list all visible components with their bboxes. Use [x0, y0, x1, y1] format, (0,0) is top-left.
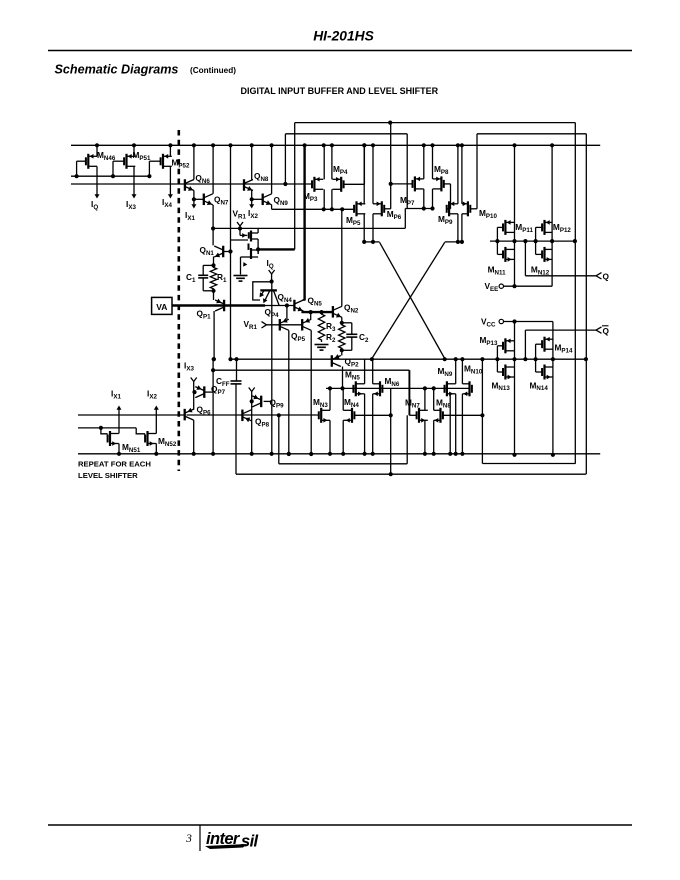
- svg-text:Q: Q: [603, 326, 610, 336]
- svg-text:3: 3: [185, 833, 192, 845]
- svg-text:Schematic Diagrams: Schematic Diagrams: [55, 63, 179, 77]
- svg-text:LEVEL SHIFTER: LEVEL SHIFTER: [78, 471, 138, 480]
- svg-text:(Continued): (Continued): [190, 66, 236, 75]
- svg-text:VA: VA: [156, 302, 167, 312]
- svg-text:Q: Q: [603, 272, 610, 282]
- svg-text:sil: sil: [241, 833, 259, 851]
- svg-text:HI-201HS: HI-201HS: [313, 29, 374, 44]
- svg-text:DIGITAL INPUT BUFFER AND LEVEL: DIGITAL INPUT BUFFER AND LEVEL SHIFTER: [240, 86, 438, 96]
- svg-text:REPEAT FOR EACH: REPEAT FOR EACH: [78, 460, 151, 469]
